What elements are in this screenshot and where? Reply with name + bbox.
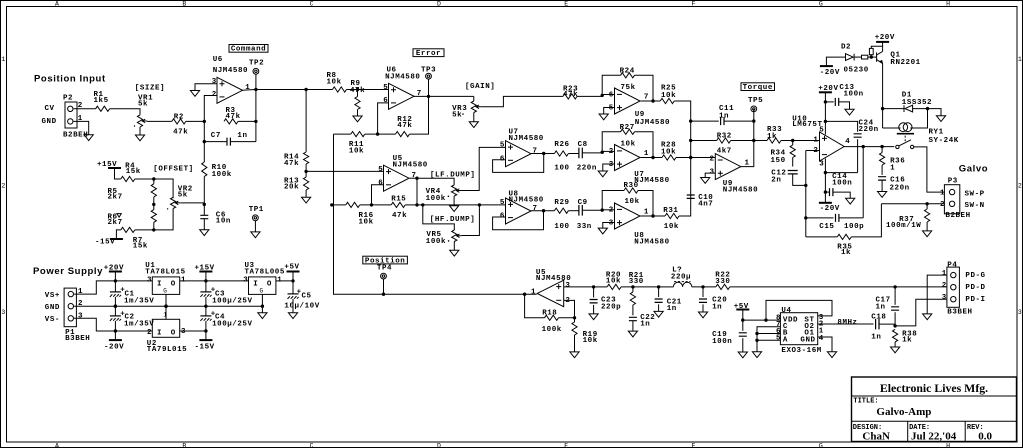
wire C20 to ground bbox=[702, 304, 704, 312]
svg-text:7: 7 bbox=[533, 148, 538, 156]
wire R16 to node bbox=[360, 204, 391, 206]
wire -15V stem bbox=[205, 331, 207, 340]
svg-text:47k: 47k bbox=[284, 160, 299, 168]
regulator U3 TA78L005 bbox=[243, 262, 285, 294]
op-amp U7 first half follower bbox=[500, 129, 544, 167]
svg-text:100p: 100p bbox=[844, 223, 864, 231]
section title Galvo bbox=[959, 163, 988, 174]
title block revision bbox=[978, 431, 992, 443]
svg-text:NJM4580: NJM4580 bbox=[385, 74, 420, 82]
wire C14 left bbox=[825, 191, 829, 193]
wire VR4 wiper to U7 pin5 bbox=[461, 147, 505, 190]
ground at C21 bbox=[654, 311, 663, 317]
wire trunk corner to R11 bbox=[334, 133, 351, 135]
wire R18 to pin2 bbox=[559, 300, 575, 317]
capacitor C18 1n bbox=[871, 313, 886, 341]
wire R18 feedback bbox=[525, 294, 545, 318]
svg-text:R27: R27 bbox=[620, 124, 635, 132]
svg-text:3: 3 bbox=[147, 276, 152, 284]
test point TP5 bbox=[751, 106, 757, 112]
svg-text:5k: 5k bbox=[138, 101, 148, 109]
svg-text:EXO3-16M: EXO3-16M bbox=[781, 347, 821, 355]
wire R20 to R21 node bbox=[621, 286, 659, 288]
op-amp U7 second half bbox=[609, 145, 670, 186]
node R30 tap bbox=[601, 208, 604, 211]
svg-text:TITLE:: TITLE: bbox=[853, 398, 878, 406]
resistor R10 100k bbox=[202, 162, 232, 179]
wire C15 row right bbox=[839, 217, 863, 219]
op-amp U8 first half follower bbox=[500, 190, 544, 224]
wire R21 to C22 bbox=[632, 287, 634, 315]
svg-text:NJM4580: NJM4580 bbox=[634, 238, 669, 246]
base resistor box of Q1 bbox=[862, 55, 868, 59]
wire R38 to ground bbox=[894, 342, 896, 347]
svg-text:2: 2 bbox=[78, 300, 83, 308]
node trunk R32 bbox=[689, 139, 692, 142]
resistor R34 150 bbox=[771, 145, 796, 165]
label [HF.DUMP] bbox=[430, 216, 475, 224]
pullup resistor box of Q1 bbox=[869, 46, 882, 57]
node ST tie to VDD bbox=[764, 318, 767, 321]
wire TP4 stem bbox=[383, 279, 385, 294]
capacitor C8 220n bbox=[577, 141, 597, 172]
capacitor C21 1n bbox=[655, 299, 682, 313]
svg-text:Position Input: Position Input bbox=[34, 73, 106, 84]
wire R14 to R13 bbox=[305, 164, 307, 177]
section title Position Input bbox=[34, 73, 106, 84]
wire node A to VR2 top bbox=[154, 179, 173, 198]
wire VR1 wiper to R2 bbox=[147, 120, 172, 122]
capacitor C10 4n7 bbox=[687, 194, 714, 208]
section title Power Supply bbox=[33, 266, 103, 277]
wire inverting input jog U6 pin2 bbox=[204, 96, 217, 122]
svg-text:2k7: 2k7 bbox=[108, 194, 123, 202]
svg-text:NJM4580: NJM4580 bbox=[509, 197, 544, 205]
resistor R23 47k bbox=[563, 85, 578, 99]
svg-text:220n: 220n bbox=[890, 184, 910, 192]
wire U6 output bbox=[243, 89, 307, 92]
label GND at P1 bbox=[45, 304, 60, 312]
ground at GND rail end bbox=[258, 313, 267, 319]
svg-text:2: 2 bbox=[1, 183, 5, 190]
svg-text:VS+: VS+ bbox=[45, 292, 60, 300]
svg-text:330: 330 bbox=[715, 278, 730, 286]
wire R22 to P4 bbox=[730, 286, 947, 288]
svg-text:A: A bbox=[55, 1, 59, 8]
resistor R22 330 bbox=[715, 272, 730, 290]
wire rail to inductor bbox=[659, 286, 674, 288]
wire R19 leads bbox=[574, 318, 576, 352]
regulator U2 TA79L015 bbox=[147, 312, 187, 355]
label 8MHz bbox=[837, 319, 857, 327]
svg-text:100m/1W: 100m/1W bbox=[886, 222, 921, 230]
label SW-N bbox=[965, 202, 985, 210]
svg-text:47k: 47k bbox=[392, 212, 407, 220]
ground at C5 bbox=[288, 313, 297, 319]
svg-text:1SS352: 1SS352 bbox=[902, 99, 932, 107]
potentiometer VR3 5k bbox=[452, 101, 481, 119]
svg-text:PD-I: PD-I bbox=[965, 296, 985, 304]
potentiometer VR2 5k bbox=[167, 185, 193, 209]
node C5 tap bbox=[291, 279, 294, 282]
wire VR5 wiper riser bbox=[461, 205, 479, 236]
ground at C13 bbox=[845, 109, 854, 115]
capacitor C16 220n bbox=[878, 177, 910, 193]
wire node to C7 left bbox=[204, 121, 227, 141]
wire VR2 wiper to summing node bbox=[180, 202, 204, 204]
svg-text:NJM4580: NJM4580 bbox=[635, 119, 670, 127]
capacitor C11 1n bbox=[719, 105, 734, 125]
node output R35 riser bbox=[880, 145, 883, 148]
svg-text:U4: U4 bbox=[781, 307, 791, 315]
svg-text:0.0: 0.0 bbox=[978, 431, 992, 443]
svg-text:+15V: +15V bbox=[195, 265, 215, 273]
node offset summing bbox=[203, 203, 206, 206]
wire R35 row right bbox=[851, 204, 881, 237]
svg-text:1: 1 bbox=[940, 189, 945, 197]
wire C23 to ground bbox=[593, 305, 595, 314]
svg-text:O: O bbox=[171, 280, 176, 288]
wire command to R8 bbox=[306, 89, 332, 91]
wire TP2 to output bbox=[255, 74, 257, 89]
svg-text:+20V: +20V bbox=[875, 34, 895, 42]
svg-text:C15: C15 bbox=[819, 223, 834, 231]
wire R35 row left bbox=[806, 236, 838, 238]
wire pin2 trunk bbox=[805, 151, 807, 237]
wire R6 to node C bbox=[153, 222, 155, 230]
svg-text:P4: P4 bbox=[947, 262, 957, 270]
wire R30 feedback left bbox=[602, 191, 624, 211]
wire C21 to ground bbox=[658, 304, 660, 311]
svg-text:Galvo-Amp: Galvo-Amp bbox=[876, 406, 931, 418]
svg-text:20k: 20k bbox=[284, 184, 299, 192]
svg-text:3: 3 bbox=[942, 294, 947, 302]
relay contact bbox=[896, 140, 914, 149]
svg-text:2: 2 bbox=[1018, 183, 1022, 190]
svg-text:R24: R24 bbox=[620, 67, 635, 75]
wire P1 pin2 GND rail bbox=[74, 305, 262, 307]
svg-text:4k7: 4k7 bbox=[717, 148, 732, 156]
wire C20 lead bbox=[702, 287, 704, 297]
wire C23 lead bbox=[593, 287, 595, 298]
wire P2 pin1 to ground bbox=[74, 121, 89, 134]
title block title Galvo-Amp bbox=[876, 406, 931, 418]
capacitor C5 10u/10V bbox=[284, 281, 319, 313]
capacitor C19 100n bbox=[712, 331, 747, 346]
svg-text:10k: 10k bbox=[621, 141, 636, 149]
svg-text:220p: 220p bbox=[601, 304, 621, 312]
svg-text:I: I bbox=[253, 280, 258, 288]
wire C16 to ground bbox=[881, 180, 883, 191]
svg-text:Torque: Torque bbox=[743, 84, 773, 92]
wire C11 left bbox=[691, 120, 719, 122]
label VS+ bbox=[45, 292, 60, 300]
ground at U9a pin5 bbox=[599, 114, 608, 120]
label PD-I bbox=[965, 296, 985, 304]
test point TP1 bbox=[253, 215, 259, 221]
svg-text:B3BEH: B3BEH bbox=[947, 308, 972, 316]
resistor R5 2k7 bbox=[108, 184, 157, 202]
wire trunk to R16 bbox=[332, 204, 346, 206]
resistor R18 100k bbox=[542, 309, 562, 334]
svg-text:C5: C5 bbox=[302, 292, 312, 300]
wire R4 to node A bbox=[135, 178, 154, 180]
svg-text:8MHz: 8MHz bbox=[837, 319, 857, 327]
label TP5 bbox=[748, 97, 763, 105]
wire R9 lead bbox=[357, 90, 359, 117]
node pin3 C14 bbox=[824, 190, 827, 193]
wire R25 to trunk bbox=[674, 101, 691, 158]
wire C8 to U7 pin2 bbox=[582, 151, 614, 153]
node R24 tap bbox=[601, 94, 604, 97]
wire C15 riser bbox=[862, 147, 864, 218]
wire U6b output bbox=[414, 95, 474, 97]
svg-text:O: O bbox=[267, 280, 272, 288]
svg-text:05230: 05230 bbox=[844, 67, 869, 75]
connector P3 bbox=[940, 178, 971, 221]
svg-text:1: 1 bbox=[942, 270, 947, 278]
svg-text:ChaN: ChaN bbox=[862, 431, 890, 443]
svg-text:RN2201: RN2201 bbox=[890, 59, 920, 67]
wire R28 to U9b pin2 bbox=[676, 157, 715, 159]
test point TP3 bbox=[426, 73, 432, 79]
svg-text:G: G bbox=[819, 1, 823, 8]
svg-text:5k: 5k bbox=[452, 111, 462, 119]
wire U1 out to +15V bbox=[180, 280, 249, 282]
svg-text:NJM4580: NJM4580 bbox=[393, 162, 428, 170]
node R37 tap bbox=[925, 202, 928, 205]
svg-text:10n: 10n bbox=[216, 217, 231, 225]
svg-text:5: 5 bbox=[819, 126, 824, 134]
wire R34 lead bbox=[792, 141, 794, 167]
title block REV label bbox=[967, 424, 984, 432]
svg-text:-20V: -20V bbox=[820, 69, 840, 77]
boxed label Position bbox=[363, 256, 408, 265]
label GND bbox=[42, 118, 57, 126]
svg-text:+20V: +20V bbox=[818, 85, 838, 93]
svg-text:3: 3 bbox=[609, 161, 614, 169]
svg-text:U6: U6 bbox=[213, 56, 223, 64]
label +5V at U4 bbox=[734, 303, 749, 311]
wire R33 to U10 pin1 bbox=[781, 140, 820, 142]
svg-text:2k7: 2k7 bbox=[108, 219, 123, 227]
wire R32 left bbox=[691, 140, 717, 142]
node R21 tap bbox=[631, 285, 634, 288]
wire VR3 bottom to ground bbox=[473, 113, 475, 122]
svg-text:R18: R18 bbox=[542, 309, 557, 317]
svg-text:1: 1 bbox=[644, 208, 649, 216]
svg-text:1: 1 bbox=[1, 56, 5, 63]
inductor L? 220u bbox=[671, 267, 692, 287]
capacitor C24 220n bbox=[854, 119, 879, 137]
ground at D1 bbox=[936, 116, 945, 122]
ground at U9b pin3 bbox=[701, 178, 710, 184]
svg-text:1m/35V: 1m/35V bbox=[124, 297, 154, 305]
resistor R16 10k bbox=[346, 202, 374, 226]
connector P4 bbox=[942, 262, 973, 317]
svg-text:1k: 1k bbox=[902, 337, 912, 345]
wire out to feedback node bbox=[416, 178, 418, 205]
resistor R19 10k bbox=[572, 322, 598, 345]
wire U10 pin3 stub bbox=[824, 159, 826, 203]
svg-text:75k: 75k bbox=[621, 84, 636, 92]
svg-text:R29: R29 bbox=[554, 199, 569, 207]
op-amp U9 second half bbox=[710, 154, 759, 195]
svg-text:100µ/25V: 100µ/25V bbox=[212, 320, 252, 328]
capacitor C9 33n bbox=[577, 199, 592, 231]
node R18 tap bbox=[523, 293, 526, 296]
wire +5V stem bbox=[292, 272, 294, 281]
ground at C16 bbox=[878, 192, 887, 198]
svg-text:[SIZE]: [SIZE] bbox=[135, 85, 165, 93]
node offset B bbox=[152, 203, 155, 206]
power +20V at Q1 bbox=[875, 34, 895, 42]
wire U7b pin3 to ground bbox=[603, 164, 615, 171]
svg-text:5: 5 bbox=[776, 335, 781, 343]
svg-text:G: G bbox=[163, 287, 167, 294]
capacitor C15 100p bbox=[819, 214, 864, 231]
svg-text:GND: GND bbox=[45, 304, 60, 312]
resistor R31 10k bbox=[663, 207, 679, 231]
wire U5a output bbox=[410, 177, 418, 179]
svg-text:100k: 100k bbox=[212, 171, 232, 179]
node U1 gnd bbox=[164, 305, 167, 308]
wire R11 right bbox=[365, 133, 396, 135]
node U4 pin5 bbox=[755, 339, 758, 342]
power +20V at U10 bbox=[818, 85, 838, 93]
wire U6 pin3 to ground bbox=[195, 84, 217, 91]
title block company name bbox=[880, 381, 988, 395]
wire R10 top lead bbox=[203, 142, 205, 162]
svg-text:5: 5 bbox=[378, 166, 383, 174]
svg-text:10k: 10k bbox=[664, 223, 679, 231]
wire R12 to output bbox=[410, 96, 429, 134]
resistor R36 1 bbox=[880, 153, 906, 173]
wire gain top to VR3 bbox=[473, 96, 475, 101]
svg-text:5: 5 bbox=[500, 142, 505, 150]
label VS- bbox=[45, 316, 60, 324]
node C20 tap bbox=[701, 285, 704, 288]
svg-text:PD-G: PD-G bbox=[965, 272, 985, 280]
svg-text:220n: 220n bbox=[859, 126, 879, 134]
wire ABC bus to ground bbox=[756, 340, 758, 352]
node divider tap bbox=[304, 170, 307, 173]
svg-text:TP1: TP1 bbox=[249, 206, 264, 214]
label SW-P bbox=[965, 190, 985, 198]
svg-text:1: 1 bbox=[163, 312, 167, 319]
wire U10 output bbox=[844, 146, 894, 148]
wire U4 pin4 to ground bbox=[818, 337, 832, 352]
op-amp U5 first half bbox=[378, 155, 428, 191]
ground at C23 bbox=[589, 314, 598, 320]
power -20V rail tap bbox=[104, 340, 124, 351]
svg-text:6: 6 bbox=[383, 97, 388, 105]
svg-text:[HF.DUMP]: [HF.DUMP] bbox=[430, 216, 475, 224]
wire node C to VR2 bottom bbox=[154, 209, 173, 230]
ground at R13 bbox=[302, 197, 311, 203]
wire U8b output bbox=[641, 215, 666, 217]
op-amp U6 second half bbox=[383, 67, 422, 110]
wire C24 bottom to pin3 row bbox=[857, 139, 859, 172]
node R9 tap bbox=[356, 88, 359, 91]
wire C19 to ground bbox=[742, 338, 744, 352]
wire R8 to R9 node bbox=[347, 89, 389, 91]
transistor Q1 RN2201 bbox=[877, 51, 921, 67]
node command branch bbox=[304, 88, 307, 91]
power +5V tap bbox=[284, 264, 299, 272]
wire Q1 collector bbox=[882, 42, 884, 52]
resistor R2 47k bbox=[172, 113, 188, 136]
svg-text:E: E bbox=[564, 442, 568, 448]
resistor R25 10k bbox=[660, 84, 676, 103]
wire U4 ST loop bbox=[766, 300, 832, 320]
svg-text:R15: R15 bbox=[391, 196, 406, 204]
resistor R12 47k bbox=[396, 116, 413, 137]
svg-text:I: I bbox=[157, 329, 162, 337]
wire VR5 bottom to ground bbox=[453, 242, 455, 251]
svg-text:P2: P2 bbox=[63, 95, 73, 103]
ground at C14 bbox=[846, 198, 855, 204]
node summing trunk bottom bbox=[689, 156, 692, 159]
wire R26 to C8 bbox=[568, 153, 579, 155]
wire node A down bbox=[153, 179, 155, 184]
node R11-R12 bbox=[376, 132, 379, 135]
wire C15 row left bbox=[806, 217, 834, 219]
svg-text:I: I bbox=[157, 280, 162, 288]
resistor R15 47k bbox=[391, 196, 407, 221]
svg-text:47k: 47k bbox=[173, 129, 188, 137]
svg-text:D: D bbox=[437, 1, 441, 8]
wire R10 to summing node bbox=[203, 177, 205, 216]
wire C6 to ground bbox=[203, 219, 205, 230]
wire relay coil right riser bbox=[910, 109, 927, 128]
svg-text:C16: C16 bbox=[890, 177, 905, 185]
node U8b out bbox=[651, 214, 654, 217]
node C24 tap bbox=[824, 120, 827, 123]
svg-text:1k5: 1k5 bbox=[94, 97, 109, 105]
node pin2 C15 bbox=[804, 216, 807, 219]
wire C9 to U8 pin2 bbox=[582, 209, 614, 212]
node offset C bbox=[152, 228, 155, 231]
svg-text:1: 1 bbox=[1018, 56, 1022, 63]
svg-text:2: 2 bbox=[212, 91, 217, 99]
svg-text:Electronic Lives Mfg.: Electronic Lives Mfg. bbox=[880, 381, 988, 395]
svg-text:VS-: VS- bbox=[45, 316, 60, 324]
resistor R9 47k bbox=[350, 80, 365, 110]
svg-text:220n: 220n bbox=[577, 164, 597, 172]
wire D1 row left bbox=[883, 108, 904, 110]
svg-text:100: 100 bbox=[554, 223, 569, 231]
svg-text:1: 1 bbox=[245, 84, 250, 92]
svg-text:100n: 100n bbox=[844, 90, 864, 98]
svg-text:[GAIN]: [GAIN] bbox=[465, 83, 495, 91]
svg-text:O: O bbox=[171, 329, 176, 337]
wire -15V to R7 bbox=[116, 230, 120, 239]
capacitor C12 2n bbox=[771, 170, 797, 185]
svg-text:1: 1 bbox=[78, 288, 83, 296]
ground at U4 pin4 bbox=[827, 352, 836, 358]
node U8a out bbox=[542, 209, 545, 212]
svg-text:E: E bbox=[564, 1, 568, 8]
power +15V tap bbox=[195, 265, 215, 273]
title block box bbox=[852, 377, 1017, 442]
node dither bbox=[893, 324, 896, 327]
relay RY1 SY-24K coil bbox=[897, 123, 959, 145]
wire U5a pin6 jog bbox=[372, 185, 384, 205]
wire R27 feedback right bbox=[635, 132, 654, 158]
resistor R28 10k bbox=[661, 141, 676, 160]
oscillator U4 EXO3-16M bbox=[776, 307, 824, 355]
